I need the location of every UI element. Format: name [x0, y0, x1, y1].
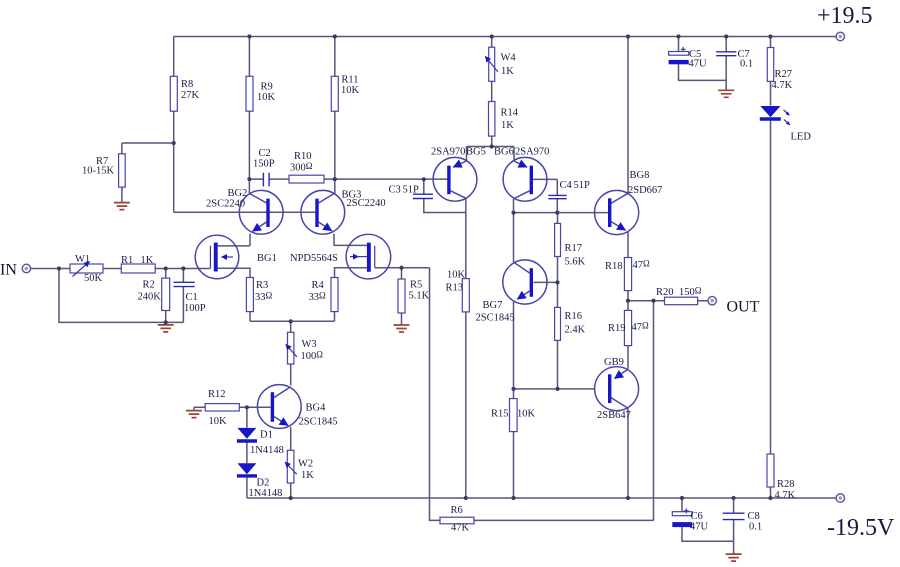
- svg-text:R4: R4: [312, 280, 325, 291]
- resistor R2 240K: [162, 278, 170, 310]
- svg-text:1N4148: 1N4148: [250, 445, 284, 456]
- svg-text:W4: W4: [501, 53, 517, 64]
- svg-text:C4: C4: [560, 180, 573, 191]
- svg-text:2SC2240: 2SC2240: [206, 199, 245, 210]
- junction dots C2/R10 line: [247, 177, 426, 181]
- transistor BG6 (2SA970, mirrored PNP): [503, 157, 547, 201]
- svg-text:W3: W3: [302, 339, 317, 350]
- svg-text:1K: 1K: [501, 66, 514, 77]
- resistor R19 47R: [624, 310, 631, 345]
- resistor R28 4.7K: [767, 454, 774, 487]
- svg-text:47U: 47U: [689, 59, 708, 70]
- svg-text:10K: 10K: [517, 409, 536, 420]
- capacitor C3 51P: [413, 194, 433, 198]
- wire: D1/D2 string: [246, 407, 248, 498]
- terminal +19.5: [836, 32, 844, 40]
- svg-text:5.1K: 5.1K: [409, 291, 430, 302]
- svg-text:C8: C8: [748, 511, 760, 522]
- svg-text:R20: R20: [656, 287, 674, 298]
- wire: output node to R20 and OUT: [628, 300, 708, 302]
- svg-text:10K: 10K: [447, 270, 466, 281]
- svg-text:IN: IN: [0, 261, 17, 278]
- transistor BG4 (2SC1845, NPN): [257, 385, 301, 429]
- wire: BG7 emitter down to R15 node: [513, 302, 515, 389]
- wire: JFET-R source to R4: [335, 268, 367, 278]
- svg-text:R5: R5: [410, 280, 422, 291]
- wire: C1 leads: [182, 269, 184, 323]
- resistor R16 2.4K: [555, 307, 561, 340]
- capacitor C8 0.1: [723, 513, 745, 519]
- svg-text:33Ω: 33Ω: [255, 291, 273, 304]
- wire: R6 to output node: [474, 301, 654, 521]
- wire: JFET-L source to R3: [218, 268, 250, 277]
- diode D1 1N4148: [237, 428, 257, 441]
- ground under R5: [394, 325, 410, 332]
- svg-text:R17: R17: [565, 243, 583, 254]
- transistor BG1 left JFET (NPD5564S): [195, 235, 239, 279]
- svg-text:51P: 51P: [574, 180, 591, 191]
- svg-text:100P: 100P: [184, 303, 206, 314]
- svg-text:R2: R2: [143, 280, 155, 291]
- wire: BG4 base line: [239, 406, 270, 408]
- wire: C5/C7 decoupling top: [679, 37, 727, 90]
- svg-text:150Ω: 150Ω: [679, 285, 702, 298]
- wire: R17/R16 chain: [557, 213, 559, 389]
- svg-text:10K: 10K: [209, 416, 228, 427]
- ground under R7: [114, 203, 130, 210]
- junction dots bottom rail: [289, 496, 773, 500]
- svg-text:GB9: GB9: [604, 357, 624, 368]
- wire: R8 branch from rail down to bias node: [173, 37, 175, 213]
- wire: C6/C8 decoupling bottom: [682, 498, 734, 554]
- junction dot BG4 base / D1: [245, 405, 249, 409]
- transistor BG3 (2SC2240, NPN): [301, 190, 345, 234]
- capacitor C7 0.1: [716, 52, 736, 56]
- resistor R11 10K: [331, 76, 338, 111]
- svg-text:R15: R15: [491, 409, 509, 420]
- wire: BG5 collector / R13 line down to rail: [465, 198, 467, 498]
- svg-text:D1: D1: [260, 430, 273, 441]
- svg-text:C3: C3: [389, 185, 401, 196]
- svg-text:5.6K: 5.6K: [565, 257, 586, 268]
- wire: GB9 base line: [514, 388, 595, 390]
- resistor R27 4.7K: [767, 48, 773, 82]
- svg-text:R6: R6: [451, 505, 463, 516]
- terminal IN: [22, 264, 30, 272]
- transistor BG7 (2SC1845, mirrored NPN): [503, 260, 547, 304]
- svg-text:R28: R28: [777, 479, 795, 490]
- svg-text:W1: W1: [75, 254, 90, 265]
- resistor R13 10K: [462, 279, 469, 312]
- svg-text:100Ω: 100Ω: [301, 350, 324, 363]
- svg-text:BG8: BG8: [630, 170, 650, 181]
- svg-text:10K: 10K: [257, 92, 276, 103]
- svg-text:51P: 51P: [403, 185, 420, 196]
- wire: C2/R10 line from BG2 collector to BG5 base: [249, 178, 449, 180]
- svg-text:2SC1845: 2SC1845: [476, 313, 515, 324]
- wire: BG8 emitter / R18 / R19 / GB9 emitter chain: [627, 232, 629, 370]
- svg-text:10K: 10K: [341, 85, 360, 96]
- potentiometer W4 1K: [485, 47, 498, 81]
- wire: input line from IN terminal to JFET gate: [31, 268, 211, 270]
- svg-text:47Ω: 47Ω: [632, 321, 650, 334]
- svg-text:R18: R18: [605, 261, 623, 272]
- wire: R27/LED/R28 chain: [770, 37, 772, 499]
- wire: JFET-R gate to feedback node: [375, 267, 430, 269]
- transistor BG2 (2SC2240, mirrored NPN): [239, 190, 283, 234]
- wire: BG2 emitter to JFET drain: [218, 234, 250, 246]
- wire: base bias line to BG2/BG3 bases: [174, 211, 317, 213]
- svg-text:LED: LED: [791, 132, 812, 143]
- junction dot BG7 base: [555, 280, 559, 284]
- potentiometer W2 1K: [285, 450, 297, 483]
- resistor R15 10K: [510, 399, 518, 432]
- svg-text:2SA970: 2SA970: [431, 147, 465, 158]
- resistor R18 47R: [624, 258, 631, 291]
- svg-text:R14: R14: [501, 108, 519, 119]
- svg-text:D2: D2: [257, 478, 270, 489]
- resistor R12 10K: [205, 404, 239, 411]
- svg-text:R13: R13: [446, 283, 464, 294]
- transistor BG5 (2SA970, PNP): [433, 157, 477, 201]
- svg-text:R8: R8: [181, 79, 193, 90]
- svg-text:0.1: 0.1: [749, 522, 762, 533]
- wire: R2 leads: [165, 269, 167, 323]
- svg-text:150P: 150P: [253, 159, 275, 170]
- resistor R6 47K: [440, 517, 474, 524]
- wire: BG8 collector to rail: [627, 37, 629, 194]
- svg-text:47Ω: 47Ω: [633, 259, 651, 272]
- svg-text:27K: 27K: [181, 90, 200, 101]
- resistor R1 1K: [121, 264, 155, 273]
- svg-text:R11: R11: [341, 75, 358, 86]
- svg-text:C6: C6: [691, 511, 703, 522]
- wire: C3 from BG5 base to collector: [424, 179, 466, 212]
- resistor R9 10K: [246, 76, 253, 111]
- resistor R20 150R: [665, 297, 698, 305]
- wire: -19.5V bottom rail: [247, 497, 836, 499]
- resistor R4 33R: [331, 278, 338, 312]
- ground under C8: [726, 554, 742, 561]
- svg-text:240K: 240K: [138, 292, 162, 303]
- svg-text:R1: R1: [121, 255, 133, 266]
- wire: +19.5V top rail: [174, 36, 836, 38]
- wire: BG6 base to C4: [531, 179, 557, 212]
- resistor R7 10-15K: [119, 154, 126, 187]
- svg-text:2SB647: 2SB647: [597, 410, 631, 421]
- capacitor C1 100P: [174, 282, 195, 286]
- svg-text:OUT: OUT: [727, 299, 760, 316]
- svg-text:NPD5564S: NPD5564S: [290, 253, 338, 264]
- wire: R7 tap to R8 line: [122, 143, 174, 202]
- junction dots top rail: [247, 34, 772, 38]
- svg-text:C2: C2: [259, 148, 271, 159]
- svg-text:47U: 47U: [690, 522, 709, 533]
- svg-text:R9: R9: [261, 81, 273, 92]
- svg-text:2.4K: 2.4K: [565, 325, 586, 336]
- wire: BG5/BG6 emitter tie: [467, 147, 515, 161]
- resistor R8 27K: [170, 76, 177, 111]
- wire: BG7 base stub: [534, 281, 558, 283]
- svg-text:2SA970: 2SA970: [515, 147, 549, 158]
- junction dots VAS node: [511, 211, 559, 215]
- svg-text:W2: W2: [298, 459, 313, 470]
- capacitor C4 51P: [548, 195, 566, 198]
- junction dot R14 emitter tie: [490, 144, 494, 148]
- resistor R17 5.6K: [555, 223, 561, 256]
- svg-text:+19.5: +19.5: [817, 3, 873, 29]
- terminal OUT: [708, 297, 716, 305]
- resistor R14 1K: [489, 102, 495, 137]
- svg-text:BG7: BG7: [483, 300, 503, 311]
- svg-text:47K: 47K: [451, 523, 470, 534]
- junction dot R7/R8 node: [172, 141, 176, 145]
- resistor R10 300R: [289, 175, 324, 183]
- wire: R3/R4 bottoms to W3: [250, 312, 335, 333]
- junction dots output node: [626, 299, 656, 303]
- junction dots GB9 base line: [511, 387, 559, 391]
- wire: VAS node to BG8 base: [514, 212, 609, 214]
- svg-text:BG2: BG2: [228, 188, 248, 199]
- transistor BG8 (2SD667, NPN): [595, 190, 639, 234]
- svg-text:R12: R12: [208, 389, 226, 400]
- svg-text:BG6: BG6: [494, 147, 514, 158]
- potentiometer W1 50K: [70, 262, 103, 277]
- ground under R2/C1: [158, 325, 174, 332]
- wire: feedback riser down to R6: [430, 268, 441, 521]
- wire: R5 leads: [401, 268, 403, 325]
- resistor R3 33R: [246, 278, 253, 312]
- svg-text:1N4148: 1N4148: [249, 488, 283, 499]
- wire: R9 collector line: [248, 37, 250, 194]
- svg-text:4.7K: 4.7K: [775, 490, 796, 501]
- capacitor C6 47U electrolytic: [672, 508, 692, 527]
- potentiometer W3 100R: [286, 332, 297, 364]
- svg-text:R3: R3: [256, 280, 268, 291]
- wire: BG6 collector down to BG7 collector: [513, 199, 515, 262]
- svg-text:0.1: 0.1: [740, 59, 753, 70]
- wire: BG3 emitter to JFET-R drain: [334, 234, 367, 246]
- svg-text:2SC1845: 2SC1845: [299, 417, 338, 428]
- wire: GB9 collector to rail: [627, 408, 629, 498]
- capacitor C5 47U electrolytic: [669, 47, 689, 64]
- wire: input ground return loop: [59, 269, 183, 323]
- ground under C7: [718, 90, 734, 97]
- diode D2 1N4148: [237, 463, 257, 476]
- svg-text:1K: 1K: [141, 255, 154, 266]
- svg-text:-19.5V: -19.5V: [827, 515, 895, 541]
- svg-text:50K: 50K: [84, 273, 103, 284]
- transistor BG1 right JFET (NPD5564S): [346, 234, 391, 279]
- LED: [760, 106, 791, 126]
- capacitor C2 150P: [263, 173, 269, 187]
- terminal -19.5V: [836, 494, 844, 502]
- svg-text:2SC2240: 2SC2240: [347, 198, 386, 209]
- resistor R5 5.1K: [398, 279, 405, 313]
- svg-text:R27: R27: [775, 69, 793, 80]
- svg-text:BG4: BG4: [306, 403, 327, 414]
- svg-text:C1: C1: [186, 292, 198, 303]
- svg-text:2SD667: 2SD667: [628, 185, 662, 196]
- svg-text:BG1: BG1: [257, 253, 277, 264]
- wire: BG4 emitter to W2 to rail: [290, 427, 292, 498]
- ground left of R12: [186, 411, 202, 418]
- wire: R12 to ground stub: [194, 407, 205, 410]
- svg-text:R16: R16: [565, 311, 583, 322]
- svg-text:BG5: BG5: [466, 147, 486, 158]
- svg-text:300Ω: 300Ω: [290, 161, 313, 174]
- wire: R15 leads to rail: [513, 389, 515, 498]
- junction dot W3 top: [289, 319, 293, 323]
- junction dot R5 top: [399, 266, 403, 270]
- svg-text:33Ω: 33Ω: [309, 291, 327, 304]
- svg-text:R19: R19: [608, 323, 626, 334]
- wire: W3 to BG4 collector: [290, 364, 292, 385]
- wire: R11 collector line: [334, 37, 336, 194]
- junction dots input net: [57, 266, 186, 324]
- svg-text:1K: 1K: [301, 470, 314, 481]
- wire: W4/R14 line from rail to BG5/BG6 emitters: [491, 37, 493, 147]
- svg-text:4.7K: 4.7K: [772, 80, 793, 91]
- transistor GB9 (2SB647, PNP): [595, 367, 639, 411]
- svg-text:10-15K: 10-15K: [82, 166, 114, 177]
- svg-text:1K: 1K: [501, 120, 514, 131]
